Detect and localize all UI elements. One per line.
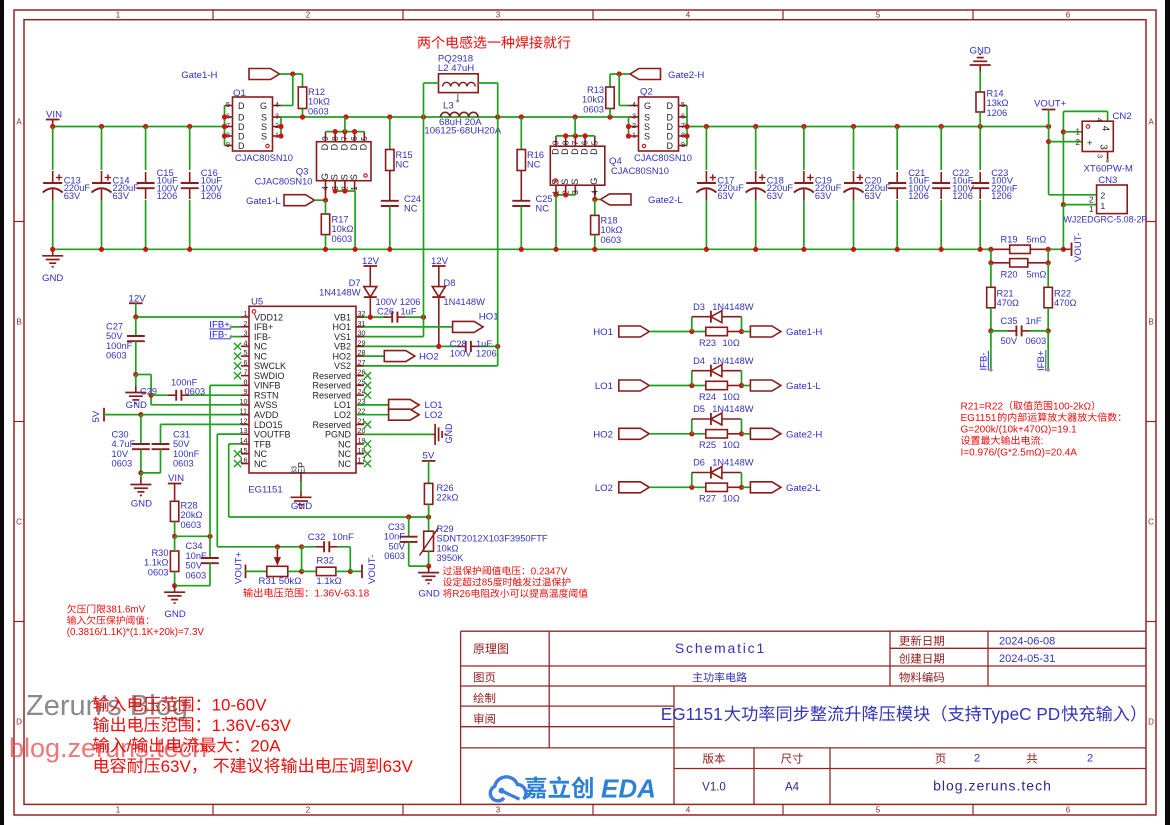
svg-text:S: S — [560, 179, 570, 185]
power flag 5V above R26 — [423, 451, 435, 462]
capacitor C20 — [853, 127, 855, 171]
svg-text:1206: 1206 — [952, 191, 973, 201]
svg-text:NC: NC — [396, 160, 410, 170]
svg-text:CJAC80SN10: CJAC80SN10 — [255, 176, 313, 186]
svg-text:3: 3 — [243, 329, 247, 338]
svg-text:1.1kΩ: 1.1kΩ — [144, 558, 169, 568]
capacitor C18 — [755, 127, 757, 171]
svg-text:Reserved: Reserved — [312, 390, 351, 400]
resistor R20 5mOhm — [990, 249, 992, 262]
svg-text:NC: NC — [527, 160, 541, 170]
wire output rail VOUT+ — [687, 126, 1049, 128]
capacitor C31 100nF — [161, 423, 242, 425]
svg-text:5: 5 — [876, 10, 881, 19]
svg-text:R21=R22: R21=R22 — [961, 401, 1004, 412]
svg-text:0603: 0603 — [173, 459, 194, 469]
svg-text:1: 1 — [275, 131, 279, 140]
svg-text:Gate2-L: Gate2-L — [786, 483, 821, 494]
svg-text:C: C — [16, 518, 22, 527]
svg-text:C32: C32 — [308, 532, 326, 543]
svg-text:LO2: LO2 — [425, 410, 443, 421]
svg-text:HO1: HO1 — [332, 322, 351, 332]
svg-text:D: D — [667, 112, 674, 122]
wire CN2 pin4 link — [1063, 110, 1107, 112]
svg-text:2: 2 — [243, 319, 247, 328]
watermark Zerun's Blog — [26, 690, 188, 722]
capacitor C22 — [940, 127, 942, 171]
svg-text:D: D — [560, 148, 570, 155]
svg-text:2: 2 — [1089, 195, 1094, 204]
svg-text:CJAC80SN10: CJAC80SN10 — [634, 153, 692, 163]
wire VS2 to SW2 — [356, 365, 498, 367]
svg-text:1: 1 — [1089, 205, 1094, 214]
power flag VOUT- mid — [350, 570, 362, 572]
svg-text:B: B — [16, 318, 21, 327]
wire Q2 drain bracket — [686, 106, 688, 146]
svg-text:7: 7 — [341, 136, 350, 141]
svg-text:6: 6 — [350, 136, 359, 141]
svg-text:28: 28 — [358, 348, 366, 357]
svg-text:CN3: CN3 — [1098, 175, 1117, 186]
resistor R30 1.1k — [170, 551, 178, 572]
wire VS1 to SW1 — [356, 336, 424, 338]
resistor R19 5mOhm — [991, 248, 1010, 250]
svg-text:R22: R22 — [1054, 289, 1071, 299]
capacitor C35 1nF — [991, 330, 1008, 332]
net flag Gate2-H output — [742, 433, 751, 435]
svg-text:GND: GND — [164, 609, 185, 620]
inductor L3 68uH — [443, 101, 454, 112]
svg-text:VB2: VB2 — [334, 342, 351, 352]
svg-text:5: 5 — [360, 136, 369, 141]
svg-text:VOUTFB: VOUTFB — [254, 430, 291, 440]
power flag VOUT+ — [1034, 99, 1067, 110]
svg-text:1N4148W: 1N4148W — [712, 356, 754, 366]
svg-text:30: 30 — [358, 329, 366, 338]
capacitor C28 1uF — [457, 345, 465, 347]
thermistor R29 SDNT2012 10k — [428, 517, 430, 531]
svg-text:106125-68UH20A: 106125-68UH20A — [424, 125, 501, 136]
net flag LO1 — [356, 404, 389, 406]
net flag Gate2-H — [630, 69, 661, 80]
svg-text:0603: 0603 — [106, 351, 127, 361]
svg-text:7: 7 — [243, 368, 247, 377]
transistor Q1 CJAC80SN10 — [233, 97, 273, 151]
net flag HO1 — [356, 326, 453, 328]
wire Q3 drain bracket to SW1 — [326, 131, 365, 133]
svg-text:63V: 63V — [161, 757, 192, 776]
svg-text:D: D — [589, 148, 599, 155]
power flag 12V to VDD12 — [129, 294, 147, 305]
svg-text:10Ω: 10Ω — [723, 338, 740, 348]
svg-text:63V: 63V — [865, 191, 882, 201]
svg-text:PGND: PGND — [325, 430, 352, 440]
svg-text:6: 6 — [681, 112, 685, 121]
svg-text:C29: C29 — [140, 387, 157, 397]
wire VIN rail — [53, 126, 225, 128]
svg-text:2: 2 — [1087, 753, 1093, 765]
svg-text:5V: 5V — [91, 410, 102, 422]
svg-text:VB1: VB1 — [334, 312, 351, 322]
pin U5 EP pad 33 — [290, 466, 299, 474]
svg-text:R29: R29 — [437, 524, 454, 534]
wire HO1 to R23 — [649, 331, 706, 333]
svg-text:C34: C34 — [186, 541, 203, 551]
svg-text:S: S — [330, 174, 340, 180]
svg-text:6: 6 — [1066, 806, 1071, 815]
svg-text:HO1: HO1 — [479, 312, 499, 323]
svg-text:2: 2 — [974, 753, 980, 765]
svg-text:HO2: HO2 — [419, 351, 439, 362]
ground GND left — [52, 249, 54, 256]
svg-text:+: + — [1087, 138, 1093, 149]
svg-text:1: 1 — [350, 186, 359, 191]
svg-text:R16: R16 — [527, 150, 544, 160]
svg-text:HO1: HO1 — [593, 327, 613, 338]
svg-text:VIN: VIN — [168, 473, 184, 484]
svg-text:10Ω: 10Ω — [723, 494, 740, 504]
svg-text:4: 4 — [275, 100, 279, 109]
net label IFB- wire — [990, 331, 992, 369]
diode D4 1N4148W — [691, 371, 693, 386]
svg-text:470Ω: 470Ω — [1054, 298, 1077, 308]
svg-text:0603: 0603 — [186, 570, 207, 580]
wire VOUT- vertical — [1062, 111, 1064, 204]
svg-text:8: 8 — [331, 136, 340, 141]
svg-text:NC: NC — [254, 342, 267, 352]
svg-text:50V: 50V — [186, 561, 203, 571]
annotation output voltage range — [243, 588, 369, 600]
svg-text:C31: C31 — [173, 430, 190, 440]
svg-text:NC: NC — [338, 439, 351, 449]
svg-text:D5: D5 — [693, 404, 705, 414]
svg-text:4: 4 — [1095, 118, 1104, 122]
svg-text:VDD12: VDD12 — [254, 312, 283, 322]
svg-text:100V: 100V — [450, 348, 473, 358]
svg-text:2024-05-31: 2024-05-31 — [999, 653, 1055, 665]
svg-text:IFB+: IFB+ — [254, 322, 273, 332]
diode D6 1N4148W — [691, 473, 693, 488]
svg-text:Gate2-H: Gate2-H — [786, 430, 822, 441]
border column ticks and numbers — [212, 10, 214, 20]
svg-text:8: 8 — [681, 131, 685, 140]
capacitor C19 — [803, 127, 805, 171]
svg-text:R24: R24 — [699, 392, 716, 402]
resistor R13 10k — [609, 74, 611, 87]
resistor R12 10k — [302, 74, 304, 87]
capacitor C24 NC — [389, 171, 391, 201]
svg-text:4: 4 — [686, 806, 691, 815]
op-amp U5 EG1151 controller — [249, 306, 356, 473]
svg-text:0603: 0603 — [332, 234, 353, 244]
transistor Q3 CJAC80SN10 — [317, 142, 372, 181]
wire Q2 source bracket — [628, 117, 630, 136]
svg-text:S: S — [261, 112, 267, 122]
svg-text:HO2: HO2 — [332, 351, 351, 361]
svg-text:63V: 63V — [113, 191, 130, 201]
capacitor C16 — [189, 127, 191, 171]
resistor R24 10Ohm — [706, 381, 728, 389]
svg-text:1nF: 1nF — [1026, 316, 1042, 326]
wire VB2 row — [356, 345, 461, 347]
svg-text:VOUT+: VOUT+ — [1034, 99, 1067, 110]
svg-text:R25: R25 — [699, 440, 716, 450]
svg-text:10kΩ: 10kΩ — [437, 543, 459, 553]
svg-text:LO1: LO1 — [334, 400, 351, 410]
annotation undervoltage block — [67, 604, 145, 615]
svg-text:NC: NC — [404, 204, 418, 214]
wire LO2 to R27 — [649, 486, 706, 488]
net flag LO2 input — [595, 483, 613, 494]
resistor R18 10k — [594, 199, 596, 215]
capacitor C32 10nF — [302, 546, 316, 548]
capacitor C33 10nF — [408, 517, 410, 537]
svg-text:1N4148W: 1N4148W — [712, 404, 754, 414]
wire HO2 to R25 — [649, 433, 706, 435]
svg-text:3950K: 3950K — [437, 553, 465, 563]
svg-text:9: 9 — [243, 387, 247, 396]
svg-text:C24: C24 — [404, 194, 421, 204]
svg-text:SDNT2012X103F3950FTF: SDNT2012X103F3950FTF — [437, 534, 548, 544]
svg-text:LO2: LO2 — [595, 483, 613, 494]
svg-text:27: 27 — [358, 358, 366, 367]
pins U5 left side — [241, 316, 249, 318]
net flag Gate2-L — [601, 194, 632, 205]
svg-text:10Ω: 10Ω — [723, 440, 740, 450]
svg-text:XT60PW-M: XT60PW-M — [1084, 163, 1133, 174]
svg-text:Q2: Q2 — [640, 87, 653, 98]
wire VB1 row — [356, 316, 387, 318]
svg-text:AVDD: AVDD — [254, 410, 279, 420]
svg-text:D: D — [349, 143, 359, 150]
svg-text:6: 6 — [1066, 10, 1071, 19]
svg-text:5: 5 — [681, 100, 685, 109]
svg-text:Reserved: Reserved — [312, 381, 351, 391]
svg-text:D4: D4 — [693, 356, 705, 366]
capacitor C30 4.7uF — [140, 415, 142, 444]
svg-text:R26: R26 — [437, 483, 454, 493]
svg-text:VOUT-: VOUT- — [367, 555, 378, 584]
svg-text:1: 1 — [1076, 128, 1081, 137]
svg-text:D6: D6 — [693, 458, 705, 468]
net flag Gate1-L — [246, 196, 281, 207]
wire Q4 source bracket to GND — [556, 194, 575, 196]
svg-text:1.36V-63.18: 1.36V-63.18 — [314, 589, 369, 600]
svg-text:3: 3 — [632, 112, 636, 121]
ground GND under C27 — [135, 375, 137, 387]
svg-text:0603: 0603 — [308, 106, 329, 116]
net flag HO1 input — [593, 327, 613, 338]
resistor R23 10Ohm — [706, 327, 728, 335]
title block row labels — [473, 643, 508, 654]
svg-text:G: G — [320, 173, 330, 180]
svg-text:50V: 50V — [388, 541, 405, 551]
svg-text:CJAC80SN10: CJAC80SN10 — [235, 153, 293, 163]
svg-text:R31 50kΩ: R31 50kΩ — [259, 576, 302, 587]
svg-text:C27: C27 — [106, 322, 123, 332]
ground GND under EP — [300, 482, 302, 491]
svg-text:NC: NC — [254, 351, 267, 361]
power flag VOUT+ left — [234, 551, 245, 584]
border row ticks and letters — [14, 221, 24, 223]
svg-text:blog.zeruns.tech: blog.zeruns.tech — [933, 777, 1052, 793]
potentiometer R31 50k — [267, 566, 288, 576]
svg-text:NC: NC — [254, 459, 267, 469]
wire VOUT+ to CN2 pin2 — [1049, 141, 1083, 143]
svg-text:AVSS: AVSS — [254, 400, 277, 410]
svg-text:1: 1 — [243, 309, 247, 318]
net flag Gate2-L output — [742, 486, 751, 488]
svg-text:D: D — [550, 148, 560, 155]
svg-text:100-2kΩ: 100-2kΩ — [1053, 401, 1092, 412]
resistor R32 1.1k — [301, 547, 303, 572]
svg-text:6: 6 — [581, 140, 590, 145]
svg-text:0.2347V: 0.2347V — [531, 566, 568, 577]
svg-text:VOUT-: VOUT- — [1073, 233, 1084, 262]
wire L2 left leg — [424, 82, 439, 84]
net flag HO2 input — [593, 430, 613, 441]
svg-text:381.6mV: 381.6mV — [106, 605, 146, 616]
svg-text:5: 5 — [243, 348, 247, 357]
svg-text:1N4148W: 1N4148W — [712, 302, 754, 312]
logo JLC EDA — [490, 777, 526, 801]
svg-text:2: 2 — [275, 121, 279, 130]
ground PGND sideways — [364, 433, 432, 435]
svg-text:10kΩ: 10kΩ — [332, 224, 354, 234]
diode D5 1N4148W — [691, 419, 693, 434]
svg-text:Schematic1: Schematic1 — [675, 640, 766, 656]
svg-text:GND: GND — [291, 501, 312, 512]
svg-text:4: 4 — [321, 186, 330, 191]
resistor R26 22k — [424, 483, 432, 504]
svg-text:D: D — [667, 101, 674, 111]
svg-text:10nF: 10nF — [186, 551, 208, 561]
svg-text:1: 1 — [116, 10, 121, 19]
svg-text:R20: R20 — [1001, 269, 1018, 279]
svg-text:9: 9 — [552, 140, 561, 145]
svg-text:1N4148W: 1N4148W — [444, 297, 486, 307]
svg-text:0603: 0603 — [112, 459, 133, 469]
svg-text:GND: GND — [126, 400, 147, 411]
svg-text:0603: 0603 — [583, 104, 604, 114]
svg-text:D: D — [339, 143, 349, 150]
svg-text:RSTN: RSTN — [254, 390, 279, 400]
svg-text:TFB: TFB — [254, 439, 271, 449]
pins U5 right side — [356, 316, 364, 318]
svg-text:7: 7 — [681, 121, 685, 130]
pin CN2 pin3 stub — [1107, 152, 1109, 161]
svg-text:10nF: 10nF — [332, 532, 354, 543]
resistor R14 13k — [979, 72, 981, 93]
svg-text:R30: R30 — [151, 548, 168, 558]
svg-text:1206: 1206 — [987, 108, 1008, 118]
page edge strip right — [1165, 0, 1170, 825]
svg-text:C25: C25 — [536, 194, 553, 204]
svg-text:4.7uF: 4.7uF — [112, 439, 136, 449]
svg-text:/: / — [127, 736, 132, 755]
svg-text:S: S — [261, 131, 267, 141]
svg-text:Gate1-H: Gate1-H — [181, 70, 217, 81]
svg-text:R26: R26 — [452, 589, 471, 600]
resistor R22 470 — [1047, 263, 1049, 288]
ground GND under R29 — [428, 566, 430, 573]
svg-text:EDA: EDA — [601, 774, 656, 804]
svg-text:2024-06-08: 2024-06-08 — [999, 636, 1055, 648]
power flag VOUT- right — [1063, 248, 1070, 250]
watermark blog.zeruns.tech — [9, 733, 207, 763]
svg-text:4: 4 — [590, 190, 599, 195]
svg-text:S: S — [349, 174, 359, 180]
svg-text:85: 85 — [482, 578, 493, 589]
capacitor C15 — [145, 127, 147, 171]
svg-text:9: 9 — [681, 140, 685, 149]
wire LO1 to R24 — [649, 385, 706, 387]
capacitor C29 100nF — [151, 394, 168, 396]
svg-text:100nF: 100nF — [106, 341, 133, 351]
svg-text:IFB-: IFB- — [254, 332, 271, 342]
svg-text:GND: GND — [444, 423, 454, 444]
capacitor C23 — [979, 127, 981, 171]
svg-text:L3: L3 — [443, 101, 454, 112]
svg-text:R21: R21 — [997, 289, 1014, 299]
svg-text:1206: 1206 — [476, 348, 497, 358]
svg-text:D: D — [238, 122, 245, 132]
wire Q3 source bracket to GND — [335, 190, 355, 192]
svg-text::: : — [1041, 436, 1044, 447]
svg-text:A: A — [16, 118, 22, 127]
svg-text:R19: R19 — [1001, 234, 1018, 244]
svg-text:32: 32 — [358, 309, 366, 318]
svg-text:Gate1-L: Gate1-L — [786, 381, 821, 392]
svg-text:4: 4 — [243, 338, 247, 347]
svg-text:R28: R28 — [181, 501, 198, 511]
wire Q4 drain bracket to SW2 — [556, 135, 595, 137]
svg-text:A: A — [1148, 118, 1154, 127]
svg-text:C30: C30 — [112, 430, 129, 440]
svg-text:SWDIO: SWDIO — [254, 371, 285, 381]
svg-text:S: S — [644, 131, 650, 141]
net flag LO1 input — [595, 381, 613, 392]
svg-text:10Ω: 10Ω — [723, 392, 740, 402]
svg-text:0603: 0603 — [384, 551, 405, 561]
svg-text:10kΩ: 10kΩ — [308, 97, 330, 107]
svg-text:3: 3 — [275, 112, 279, 121]
ground GND under R30 — [174, 586, 176, 593]
net flag Gate1-L output — [742, 385, 751, 387]
title block table — [461, 630, 1146, 632]
svg-text:5mΩ: 5mΩ — [1027, 234, 1047, 244]
svg-text:50V: 50V — [1001, 336, 1018, 346]
svg-text:5: 5 — [876, 806, 881, 815]
connector CN2 XT60PW-M — [1082, 121, 1113, 151]
capacitor C25 NC — [520, 171, 522, 201]
svg-text:2: 2 — [632, 121, 636, 130]
svg-text:1.36V-63V: 1.36V-63V — [212, 716, 292, 735]
wire CN2 pin1 link — [1063, 131, 1082, 133]
svg-text:10V: 10V — [112, 449, 129, 459]
diode D7 1N4148W — [369, 287, 371, 299]
svg-text:D: D — [330, 143, 340, 150]
resistor R21 470 — [990, 263, 992, 288]
resistor R16 NC — [520, 117, 522, 150]
svg-text:10-60V: 10-60V — [212, 695, 267, 714]
svg-text:2: 2 — [306, 10, 311, 19]
svg-text:1: 1 — [116, 806, 121, 815]
wire Gate1-L to Q3 gate — [315, 199, 326, 201]
svg-text:8: 8 — [243, 377, 247, 386]
resistor R25 10Ohm — [706, 430, 728, 438]
svg-text:3: 3 — [1098, 144, 1109, 150]
